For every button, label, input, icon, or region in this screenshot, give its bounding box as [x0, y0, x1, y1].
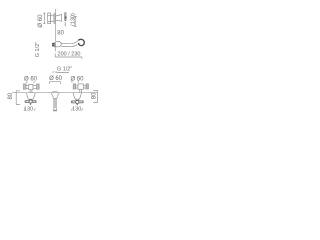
spout tube bottom edge: [61, 44, 77, 46]
right valve tee block: [78, 84, 83, 89]
wall line side view: [55, 9, 57, 52]
dimension bracket 80 left: [16, 91, 20, 105]
svg-text:80: 80: [8, 92, 14, 99]
dimension line (130): [74, 16, 77, 26]
leader line G 1/2: [53, 71, 69, 73]
dimension line D60 side: [43, 13, 45, 24]
right valve neck: [80, 89, 82, 92]
right supply pipe right cap: [86, 84, 88, 89]
left valve neck: [30, 90, 32, 93]
svg-text:Ø 60: Ø 60: [49, 76, 63, 82]
svg-text:80: 80: [57, 30, 64, 36]
svg-text:Ø 60: Ø 60: [70, 76, 84, 82]
left supply pipe right cap: [37, 84, 40, 89]
svg-text:G 1/2″: G 1/2″: [35, 42, 41, 57]
in-wall union body: [48, 13, 51, 24]
svg-text:130: 130: [72, 106, 81, 112]
extension ticks right valve: [72, 81, 78, 83]
spout flange flare front: [51, 93, 59, 98]
left escutcheon bell: [27, 93, 36, 101]
valve block: [51, 15, 54, 21]
dimension bracket 80 right: [93, 90, 97, 102]
right arm end caps: [71, 101, 72, 103]
dimension line 200/230: [55, 54, 82, 59]
spout supply stub: [52, 43, 54, 44]
spout outlet front: [53, 108, 57, 110]
cross handle side view: [65, 13, 66, 21]
left supply pipe: [26, 86, 37, 89]
extension ticks left valve: [27, 81, 34, 83]
right handle bottom arm: [77, 104, 78, 106]
spout escutcheon dome: [56, 41, 62, 47]
handle skirt cone: [55, 15, 61, 22]
arrow ticks 130 left: [24, 108, 35, 110]
svg-text:Ø 60: Ø 60: [38, 14, 44, 28]
right supply pipe left cap: [73, 84, 76, 89]
svg-text:G 1/2″: G 1/2″: [57, 66, 72, 72]
right supply pipe: [76, 85, 86, 88]
svg-text:80: 80: [91, 92, 97, 99]
svg-text:(130): (130): [71, 13, 77, 26]
left valve tee block: [29, 84, 33, 89]
spout outlet curl: [78, 39, 84, 45]
arrow ticks 130 right: [71, 108, 82, 110]
spout tube front: [54, 98, 56, 108]
dimension bracket D60 spout: [49, 82, 60, 84]
right handle knob: [76, 100, 79, 103]
left cross handle arms: [25, 101, 36, 103]
wall plate: [54, 14, 55, 24]
spout flange arc behind wall: [52, 91, 58, 92]
spout tube top edge: [61, 40, 79, 44]
right escutcheon bell: [73, 93, 81, 101]
wall line front view: [12, 92, 98, 94]
left handle bottom arm: [30, 103, 31, 105]
svg-text:Ø 60: Ø 60: [24, 77, 38, 83]
left handle knob: [29, 100, 32, 103]
left arm end caps: [25, 101, 26, 103]
spout outlet face: [80, 44, 83, 47]
right cross handle arms: [71, 101, 83, 103]
left supply pipe left cap: [23, 84, 26, 89]
svg-text:130: 130: [24, 106, 33, 112]
arrow below handle: [64, 22, 66, 25]
handle hub: [64, 16, 66, 18]
